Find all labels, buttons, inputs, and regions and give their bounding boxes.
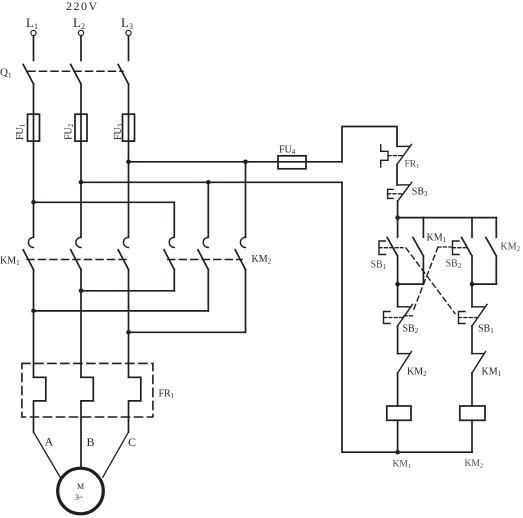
- svg-text:KM1: KM1: [427, 233, 447, 245]
- FR1 heater element phase2: [81, 377, 93, 468]
- wire pole5 to phase1: [34, 310, 209, 312]
- svg-text:KM2: KM2: [501, 242, 521, 254]
- svg-text:Q1: Q1: [0, 67, 12, 80]
- KM1 main contact pole2: [71, 237, 81, 269]
- wire feed L1 to KM2 pole4: [34, 201, 175, 203]
- svg-text:FU3: FU3: [113, 123, 125, 140]
- svg-text:B: B: [87, 435, 95, 449]
- svg-text:M: M: [77, 482, 84, 491]
- svg-text:FU4: FU4: [279, 145, 296, 157]
- wire C to motor: [103, 432, 129, 477]
- wire KM1 pole2 down: [80, 270, 82, 378]
- control top rail: [398, 217, 497, 219]
- node SB2 KM2 join: [470, 282, 475, 287]
- coil KM1: [387, 406, 411, 420]
- node SB1 KM1 join: [395, 282, 400, 287]
- KM2 linkage dashed: [168, 259, 242, 261]
- wire down to KM2 pole4: [173, 202, 175, 237]
- svg-text:FU2: FU2: [64, 123, 76, 140]
- node phase3 tap: [126, 160, 131, 165]
- control return bus: [342, 182, 472, 452]
- wire KM2 pole4 down: [173, 270, 175, 291]
- fuse FU4: [278, 156, 306, 169]
- coil KM2: [460, 406, 485, 420]
- terminal L2: [78, 30, 83, 35]
- terminal L3: [126, 30, 131, 35]
- wire SB1 KM1 join: [398, 283, 424, 285]
- fuse FU2: [80, 114, 82, 141]
- KM1 main contact pole1: [23, 237, 33, 269]
- switch Q1 linkage dashed: [28, 70, 123, 72]
- svg-text:C: C: [128, 435, 136, 449]
- svg-text:SB1: SB1: [371, 260, 387, 272]
- wire SB3 to rail: [397, 201, 399, 218]
- FR1 heater element phase3: [129, 377, 141, 432]
- start button SB1 (NO) branch: [371, 218, 404, 285]
- button SB1 NC contact (interlock): [459, 284, 495, 335]
- KM2 main contact pole4: [164, 237, 174, 269]
- wire A to motor: [34, 432, 61, 477]
- aux contact KM2 (NO self hold): [486, 218, 521, 285]
- wire phase1 FU1 to KM1 pole1: [33, 141, 35, 237]
- svg-text:3~: 3~: [75, 493, 84, 502]
- svg-text:220V: 220V: [66, 0, 99, 13]
- FR1 heater element phase1: [34, 377, 46, 432]
- wire Q1 pole1 to FU1: [33, 84, 35, 114]
- node KM2 pole5 tap: [206, 180, 211, 185]
- svg-text:KM1: KM1: [0, 256, 20, 268]
- wire coil KM1 to bottom: [397, 420, 399, 452]
- node bottom rail: [395, 450, 400, 455]
- svg-text:SB2: SB2: [403, 324, 419, 336]
- thermal relay FR1 dashed box: [22, 363, 153, 417]
- wire KM1 pole1 down: [33, 270, 35, 378]
- wire to coil KM1: [397, 373, 399, 406]
- thermal contact FR1 (NC): [381, 144, 420, 170]
- wire Q1 pole3 to FU3: [128, 84, 130, 114]
- node phase2 tap: [79, 180, 84, 185]
- svg-text:A: A: [45, 435, 54, 449]
- wire pole4 to phase2: [81, 290, 174, 292]
- svg-text:KM2: KM2: [407, 367, 427, 379]
- svg-text:SB1: SB1: [478, 324, 494, 336]
- wire KM2 pole5 down: [207, 270, 209, 311]
- svg-text:SB3: SB3: [412, 187, 428, 199]
- wire to KM1 NC: [471, 326, 473, 354]
- switch Q1 pole 1 blade: [23, 65, 33, 85]
- node phase1 tap: [31, 200, 36, 205]
- node control rail left: [395, 215, 400, 220]
- KM2 main contact pole5: [198, 237, 208, 269]
- KM1 main contact pole3: [118, 237, 128, 269]
- wire Q1 pole2 to FU2: [80, 84, 82, 114]
- control feed corner up: [342, 127, 397, 162]
- svg-text:KM1: KM1: [482, 367, 502, 379]
- node pole4 to phase2: [79, 289, 84, 294]
- node pole6 to phase3: [126, 330, 131, 335]
- fuse FU1: [33, 114, 35, 141]
- svg-text:FR1: FR1: [405, 160, 420, 171]
- svg-text:FU1: FU1: [15, 123, 27, 140]
- wire FR to SB3: [396, 164, 398, 185]
- wire down to KM2 pole6: [245, 162, 247, 238]
- svg-text:L1: L1: [26, 15, 38, 31]
- terminal L1: [31, 30, 36, 35]
- svg-text:KM1: KM1: [393, 460, 412, 471]
- svg-text:L3: L3: [121, 15, 133, 31]
- stop button SB3 (NC): [388, 182, 428, 201]
- switch Q1 pole 3 blade: [118, 65, 128, 85]
- interlock dashed SB2 to SB2NC: [404, 247, 453, 316]
- wire feed L3 to control and KM2 pole6: [129, 161, 343, 163]
- wire feed L2 to control return and KM2 pole5: [81, 181, 342, 183]
- button SB2 NC contact (interlock): [384, 284, 419, 335]
- wire to KM2 NC: [397, 326, 399, 354]
- switch Q1 pole 2 blade: [71, 65, 81, 85]
- aux contact KM1 (NO self hold): [413, 218, 447, 285]
- wire down to KM2 pole5: [207, 182, 209, 237]
- wire KM2 pole6 down: [245, 270, 247, 333]
- svg-text:L2: L2: [73, 15, 85, 31]
- fuse FU3: [128, 114, 130, 141]
- KM2 main contact pole6: [235, 237, 245, 269]
- wire to coil KM2: [471, 373, 473, 406]
- contactor KM1 NC interlock contact: [472, 352, 502, 379]
- wire phase2 FU2 to KM1 pole2: [80, 141, 82, 237]
- svg-text:SB2: SB2: [446, 259, 462, 271]
- node pole5 to phase1: [31, 309, 36, 314]
- wire L2 to switch: [80, 36, 82, 61]
- start button SB2 (NO) branch: [446, 218, 473, 285]
- svg-text:KM2: KM2: [252, 254, 272, 266]
- wire L3 to switch: [128, 36, 130, 61]
- svg-text:KM2: KM2: [465, 459, 484, 470]
- svg-text:FR1: FR1: [159, 389, 175, 401]
- wire pole6 to phase3: [129, 331, 246, 333]
- motor M: [58, 468, 104, 514]
- KM1 linkage dashed: [27, 259, 131, 261]
- wire KM1 pole3 down: [128, 270, 130, 378]
- contactor KM2 NC interlock contact: [398, 352, 428, 379]
- wire SB2 KM2 join: [472, 283, 496, 285]
- wire L1 to switch: [33, 36, 35, 61]
- wire coil KM2 to bottom: [471, 420, 473, 452]
- wire phase3 FU3 to KM1 pole3: [128, 141, 130, 237]
- interlock dashed SB1 to SB1NC: [406, 248, 455, 314]
- node KM2 pole6 tap: [243, 160, 248, 165]
